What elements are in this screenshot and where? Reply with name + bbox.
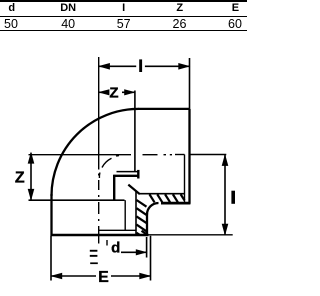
centerline horizontal axis (solid part then dash-dot) <box>29 154 132 156</box>
dimension I top: line right part <box>145 65 190 67</box>
table top border <box>0 0 247 2</box>
bottom socket outer right wall <box>146 214 148 236</box>
bottom socket bore left step line <box>124 200 126 230</box>
dimension I right: top extension line <box>191 154 227 156</box>
dimension I right: label I <box>231 191 235 204</box>
dimension Z top: right arrowhead <box>124 89 136 95</box>
elbow outer arc (body bend, outer surface) <box>51 109 138 196</box>
hatching: bottom socket wall <box>137 200 147 235</box>
svg-text:d: d <box>111 240 120 257</box>
svg-text:Z: Z <box>109 84 118 101</box>
dimension Z top: extension line right (down into fitting) <box>134 91 136 172</box>
table header separator <box>0 16 247 18</box>
bottom socket bore right wall (hatch band left edge) <box>135 191 137 235</box>
through-bore step: end cap <box>137 170 139 179</box>
dimension Z top: line right part <box>122 91 135 93</box>
dimension Z left: dimension line <box>30 153 32 200</box>
dimension I right: down arrowhead <box>222 224 229 236</box>
bottom socket mouth inner edge line <box>98 229 136 231</box>
bend centerline dash-dot arc <box>99 156 119 179</box>
dimension d: leader line <box>121 251 146 253</box>
dimension d: extension line right <box>146 237 148 258</box>
dimension I right: dimension line <box>224 155 226 235</box>
down-leg through-bore right wall <box>113 175 115 201</box>
svg-text:E: E <box>98 269 109 286</box>
dimension E: left arrowhead <box>50 273 62 280</box>
right leg outer bottom surface (thick) <box>161 202 190 205</box>
svg-text:Z: Z <box>15 170 25 187</box>
dimension I top: right arrowhead <box>178 63 190 70</box>
small tick near d label <box>106 240 108 246</box>
dimension E: extension line left <box>50 236 52 281</box>
right edge (socket mouth outer face) <box>188 109 190 204</box>
table value row: 50 40 57 26 60 <box>4 18 18 31</box>
dimension Z left: up arrowhead <box>28 152 35 164</box>
table header row: d DN I Z E <box>8 2 15 14</box>
through-bore step: lower line <box>113 175 139 177</box>
dimension I top: line left part <box>99 65 137 67</box>
dimension E: line right part <box>111 275 151 277</box>
pipe stop plane of bottom socket (also Z extension line) <box>29 199 125 201</box>
centerline vertical axis (solid part then dash-dot) <box>98 57 100 170</box>
dimension I top: extension line right <box>189 58 191 109</box>
right socket bore chamfer diagonal <box>128 185 140 195</box>
dimension Z left: down arrowhead <box>28 189 35 201</box>
hatching: right socket wall <box>150 194 185 202</box>
dimension I right: bottom extension line <box>149 234 233 236</box>
dimension Z top: left arrowhead <box>98 89 110 95</box>
dimension E: line left part <box>51 275 96 277</box>
outer fillet arc at bend (bottom right of body) <box>147 203 159 215</box>
dimension I top: label I <box>139 59 142 72</box>
dimension Z top: line left part <box>99 91 106 93</box>
bottom socket mouth face (thick) <box>51 234 149 237</box>
dimension I right: up arrowhead <box>222 154 229 166</box>
right socket mouth inner corner line <box>175 154 185 156</box>
right socket mouth inner edge <box>184 155 186 203</box>
dimension E: extension line right <box>150 236 152 281</box>
top outer edge of horizontal leg <box>138 108 190 110</box>
left outer edge of vertical leg <box>50 194 52 236</box>
dimension E: right arrowhead <box>139 273 151 280</box>
dimension d: equals sign <box>90 250 98 252</box>
table bottom border <box>0 30 247 32</box>
dimension d: right arrowhead <box>136 249 148 255</box>
right socket bore line (hatch band top edge) <box>140 193 185 195</box>
dimension I top: left arrowhead <box>98 63 110 70</box>
through-bore step: upper line <box>117 171 139 173</box>
